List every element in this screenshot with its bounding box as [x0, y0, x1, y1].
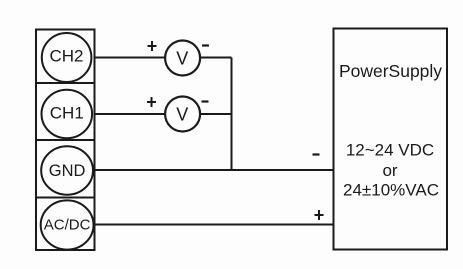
- wire CH1 to V2: [95, 113, 166, 115]
- svg-text:12~24 VDC: 12~24 VDC: [346, 141, 434, 160]
- svg-text:GND: GND: [49, 162, 86, 180]
- voltmeter V1: [165, 41, 200, 76]
- wire GND to power supply: [95, 169, 334, 171]
- terminal AC/DC: [41, 200, 94, 249]
- svg-text:AC/DC: AC/DC: [44, 217, 91, 234]
- terminal divider 3: [36, 197, 95, 199]
- svg-text:V: V: [176, 49, 188, 69]
- terminal divider 1: [36, 82, 95, 84]
- label - (V2): [202, 100, 209, 102]
- terminal divider 2: [36, 139, 95, 141]
- voltmeter V2: [165, 97, 200, 132]
- terminal GND: [41, 146, 93, 194]
- svg-text:CH1: CH1: [50, 104, 84, 123]
- label + (power supply): [315, 210, 324, 220]
- label - (power supply): [313, 153, 320, 155]
- label + (V1): [148, 41, 157, 51]
- wire V1 to bus: [200, 57, 231, 59]
- svg-text:CH2: CH2: [49, 47, 83, 66]
- label + (V2): [147, 97, 156, 107]
- terminal block outline: [36, 30, 95, 251]
- svg-text:or: or: [382, 161, 397, 180]
- wire CH2 to V1: [95, 57, 166, 59]
- wire V2 to bus: [200, 113, 231, 115]
- svg-text:V: V: [176, 105, 188, 125]
- label - (V1): [202, 44, 209, 46]
- wire vertical bus: [231, 58, 233, 171]
- power supply box: [334, 29, 448, 250]
- terminal CH1: [42, 90, 93, 138]
- wire AC/DC to power supply: [95, 224, 334, 226]
- svg-text:24±10%VAC: 24±10%VAC: [343, 181, 439, 200]
- svg-text:PowerSupply: PowerSupply: [339, 61, 442, 81]
- terminal CH2: [42, 33, 92, 82]
